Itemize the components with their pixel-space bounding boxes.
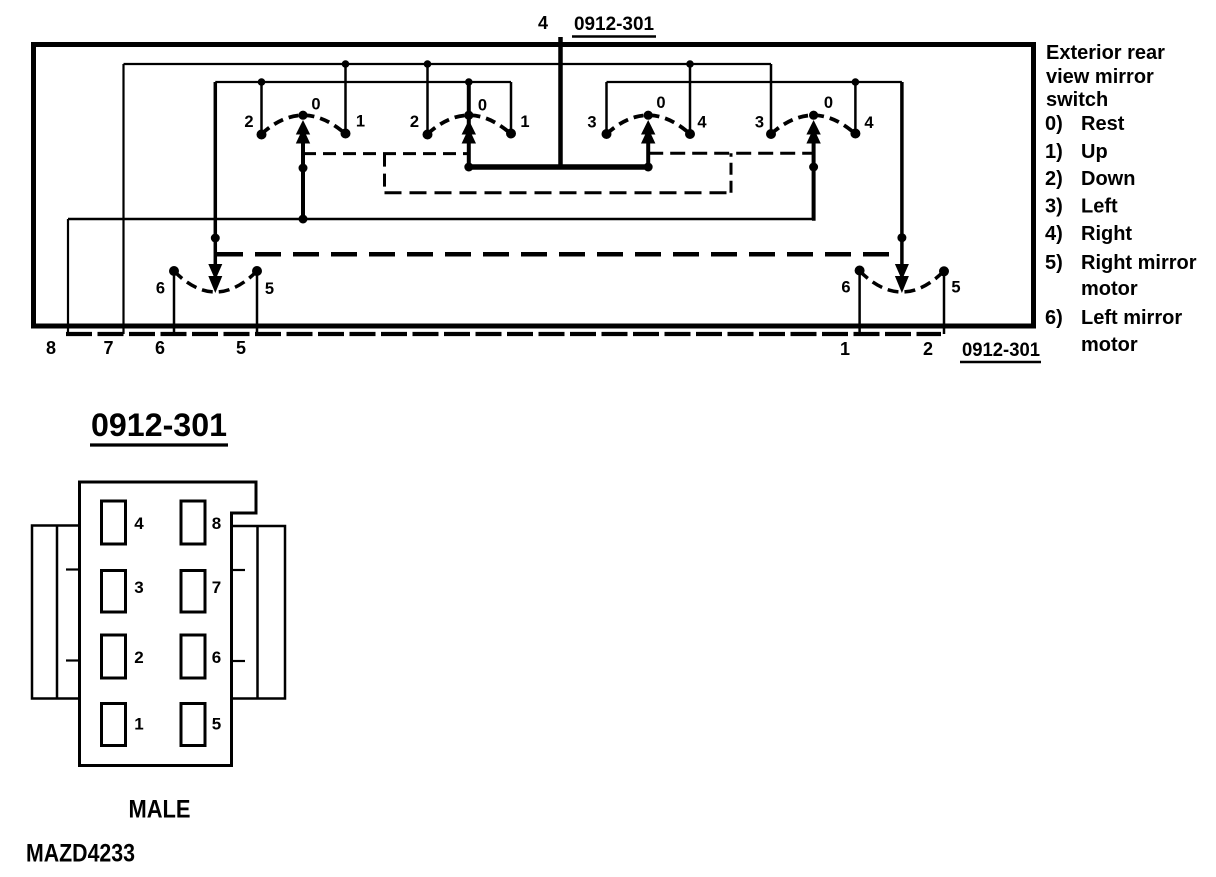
long wire pin8 to S4 pole — [68, 218, 814, 220]
switch S3 pole arrow — [641, 120, 655, 144]
svg-text:2: 2 — [244, 113, 253, 131]
svg-text:6: 6 — [212, 648, 221, 667]
switch S4 pole wire — [812, 126, 814, 219]
switch S3 pole wire — [646, 126, 650, 167]
svg-text:6): 6) — [1045, 307, 1063, 329]
motor M1 contact dots — [169, 266, 179, 276]
wire rail B right drop to S3 left contact — [605, 82, 608, 134]
svg-text:1): 1) — [1045, 141, 1063, 163]
pin cavity 4 — [102, 501, 126, 544]
wire motor M1 right contact to pin 5 — [256, 271, 259, 334]
svg-text:1: 1 — [520, 113, 529, 131]
junction dots rail B — [258, 78, 266, 86]
svg-text:Left mirror: Left mirror — [1081, 307, 1182, 329]
svg-text:6: 6 — [841, 279, 850, 297]
switch S1 contact dots — [257, 130, 267, 140]
switch S3 arc — [607, 115, 691, 134]
pin 4 wire (top) — [558, 37, 563, 167]
svg-text:0912-301: 0912-301 — [962, 340, 1040, 361]
wire left motor pole drop — [214, 82, 218, 287]
connector left wing inner line — [56, 526, 59, 699]
connector right wing inner line — [256, 526, 259, 699]
wire motor M2 left contact to pin 1 — [858, 271, 861, 334]
svg-text:0): 0) — [1045, 113, 1063, 135]
connector left wing tick 2 — [66, 659, 80, 661]
connector body outline — [80, 482, 257, 766]
svg-text:4: 4 — [697, 114, 707, 132]
svg-text:7: 7 — [103, 338, 113, 358]
svg-text:0: 0 — [478, 97, 487, 115]
dashed wire D1 drop — [383, 154, 386, 193]
svg-text:4): 4) — [1045, 223, 1063, 245]
svg-text:Down: Down — [1081, 168, 1135, 190]
svg-text:6: 6 — [156, 280, 165, 298]
svg-text:0912-301: 0912-301 — [574, 14, 654, 35]
wire S1 left contact riser — [260, 82, 263, 134]
svg-text:Right: Right — [1081, 223, 1132, 245]
connector left wing tick 1 — [66, 568, 80, 570]
wire pin7 vertical — [122, 64, 124, 334]
wire right motor pole drop — [900, 82, 904, 287]
svg-text:1: 1 — [134, 715, 143, 734]
svg-text:5: 5 — [265, 280, 274, 298]
wire S4 right contact riser — [854, 82, 857, 134]
switch S2 arc — [428, 115, 512, 134]
pin cavity 2 — [102, 635, 126, 678]
svg-text:5: 5 — [236, 338, 246, 358]
connector left wing — [32, 526, 80, 699]
svg-text:6: 6 — [155, 338, 165, 358]
switch S1 pole wire — [301, 126, 305, 219]
switch S2 pole wire — [467, 82, 471, 167]
switch S4 pole arrow — [806, 120, 820, 144]
svg-text:8: 8 — [212, 514, 221, 533]
wire rail A right drop to S4 left contact — [770, 64, 773, 134]
common thick wire pin4 to poles S2-S3 — [469, 164, 648, 170]
svg-text:1: 1 — [840, 339, 850, 359]
svg-text:2): 2) — [1045, 168, 1063, 190]
svg-text:motor: motor — [1081, 334, 1138, 356]
pole junction dots — [299, 164, 308, 173]
pin cavity 3 — [102, 571, 126, 613]
wire S1 right contact riser — [344, 64, 347, 134]
switch S2 contact dots — [423, 130, 433, 140]
svg-text:7: 7 — [212, 578, 221, 597]
rail B right segment — [607, 81, 902, 83]
svg-text:1: 1 — [356, 113, 365, 131]
wire motor M1 left contact to pin 6 — [173, 271, 176, 334]
svg-text:2: 2 — [410, 113, 419, 131]
svg-text:Exterior rear: Exterior rear — [1046, 42, 1165, 64]
svg-text:motor: motor — [1081, 278, 1138, 300]
switch S4 arc — [771, 115, 855, 134]
pin cavity 7 — [181, 571, 205, 613]
node S1 pole to long wire — [299, 215, 308, 224]
dashed wire D1b pole S3 to pole S4 — [648, 152, 813, 155]
rail B left segment — [215, 81, 511, 83]
motor M1 arrow — [208, 264, 222, 293]
wire rail B left drop to S2 right contact — [510, 82, 513, 134]
outer switch box 0912-301 — [34, 45, 1034, 327]
motor M2 arrow — [895, 264, 909, 293]
svg-text:Up: Up — [1081, 141, 1108, 163]
switch S1 pole arrow — [296, 120, 310, 144]
dashed bottom bus wire — [66, 332, 941, 336]
connector right wing tick 1 — [232, 569, 246, 571]
wire S2 left contact riser — [426, 64, 429, 134]
svg-text:3: 3 — [755, 114, 764, 132]
svg-text:2: 2 — [134, 648, 143, 667]
node motor pole dots — [211, 234, 220, 243]
pin cavity 1 — [102, 704, 126, 746]
svg-text:switch: switch — [1046, 89, 1108, 111]
svg-text:MAZD4233: MAZD4233 — [26, 840, 135, 868]
svg-text:2: 2 — [923, 339, 933, 359]
connector right wing — [232, 526, 286, 699]
svg-text:8: 8 — [46, 338, 56, 358]
svg-text:0: 0 — [824, 94, 833, 112]
switch S3 contact dots — [602, 129, 612, 139]
dashed wire D2 riser — [730, 153, 733, 193]
connector right wing tick 2 — [232, 660, 246, 662]
svg-text:3: 3 — [134, 578, 143, 597]
svg-text:Rest: Rest — [1081, 113, 1125, 135]
svg-text:0912-301: 0912-301 — [91, 407, 227, 443]
dashed wire D2 cross link — [385, 191, 732, 194]
motor M1 (left mirror motor) arc — [174, 271, 257, 292]
switch S2 pole arrow — [462, 120, 476, 144]
wire S3 right contact riser — [689, 64, 692, 134]
pin cavity 8 — [181, 501, 205, 544]
switch S1 arc — [262, 115, 346, 134]
switch S4 contact dots — [766, 129, 776, 139]
wire motor M2 right contact to pin 2 — [943, 271, 946, 334]
svg-text:5: 5 — [212, 715, 221, 734]
svg-text:MALE: MALE — [129, 796, 191, 824]
wire pin8 vertical — [67, 219, 69, 334]
svg-text:0: 0 — [656, 94, 665, 112]
junction dots rail A — [342, 60, 350, 68]
svg-text:4: 4 — [864, 114, 874, 132]
svg-text:view mirror: view mirror — [1046, 66, 1154, 88]
svg-text:5: 5 — [951, 279, 960, 297]
dashed wire D3 motor poles link — [217, 252, 902, 257]
svg-text:4: 4 — [134, 514, 144, 533]
svg-text:Right mirror: Right mirror — [1081, 252, 1197, 274]
motor M2 contact dots — [855, 266, 865, 276]
svg-text:0: 0 — [311, 96, 320, 114]
svg-text:3): 3) — [1045, 196, 1063, 218]
svg-text:4: 4 — [538, 13, 548, 33]
svg-text:5): 5) — [1045, 252, 1063, 274]
pin cavity 6 — [181, 635, 205, 678]
rail A (upper horizontal) — [124, 63, 772, 65]
svg-text:3: 3 — [587, 114, 596, 132]
svg-text:Left: Left — [1081, 196, 1118, 218]
pin cavity 5 — [181, 704, 205, 746]
dashed wire D1 pole S1 to pole S2 — [303, 152, 469, 155]
motor M2 (right mirror motor) arc — [860, 271, 944, 292]
